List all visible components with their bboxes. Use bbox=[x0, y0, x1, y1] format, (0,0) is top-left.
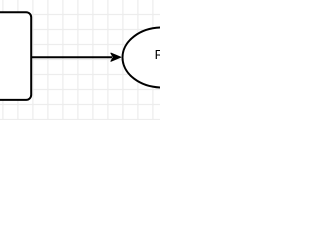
grid bbox=[0, 0, 160, 120]
ellipse node (clipped at right) bbox=[123, 28, 202, 88]
process box (rounded rectangle, clipped at left) bbox=[0, 12, 31, 100]
arrowhead bbox=[111, 53, 121, 61]
wire (arrow shaft) bbox=[31, 56, 112, 58]
svg-text:R: R bbox=[155, 47, 160, 62]
